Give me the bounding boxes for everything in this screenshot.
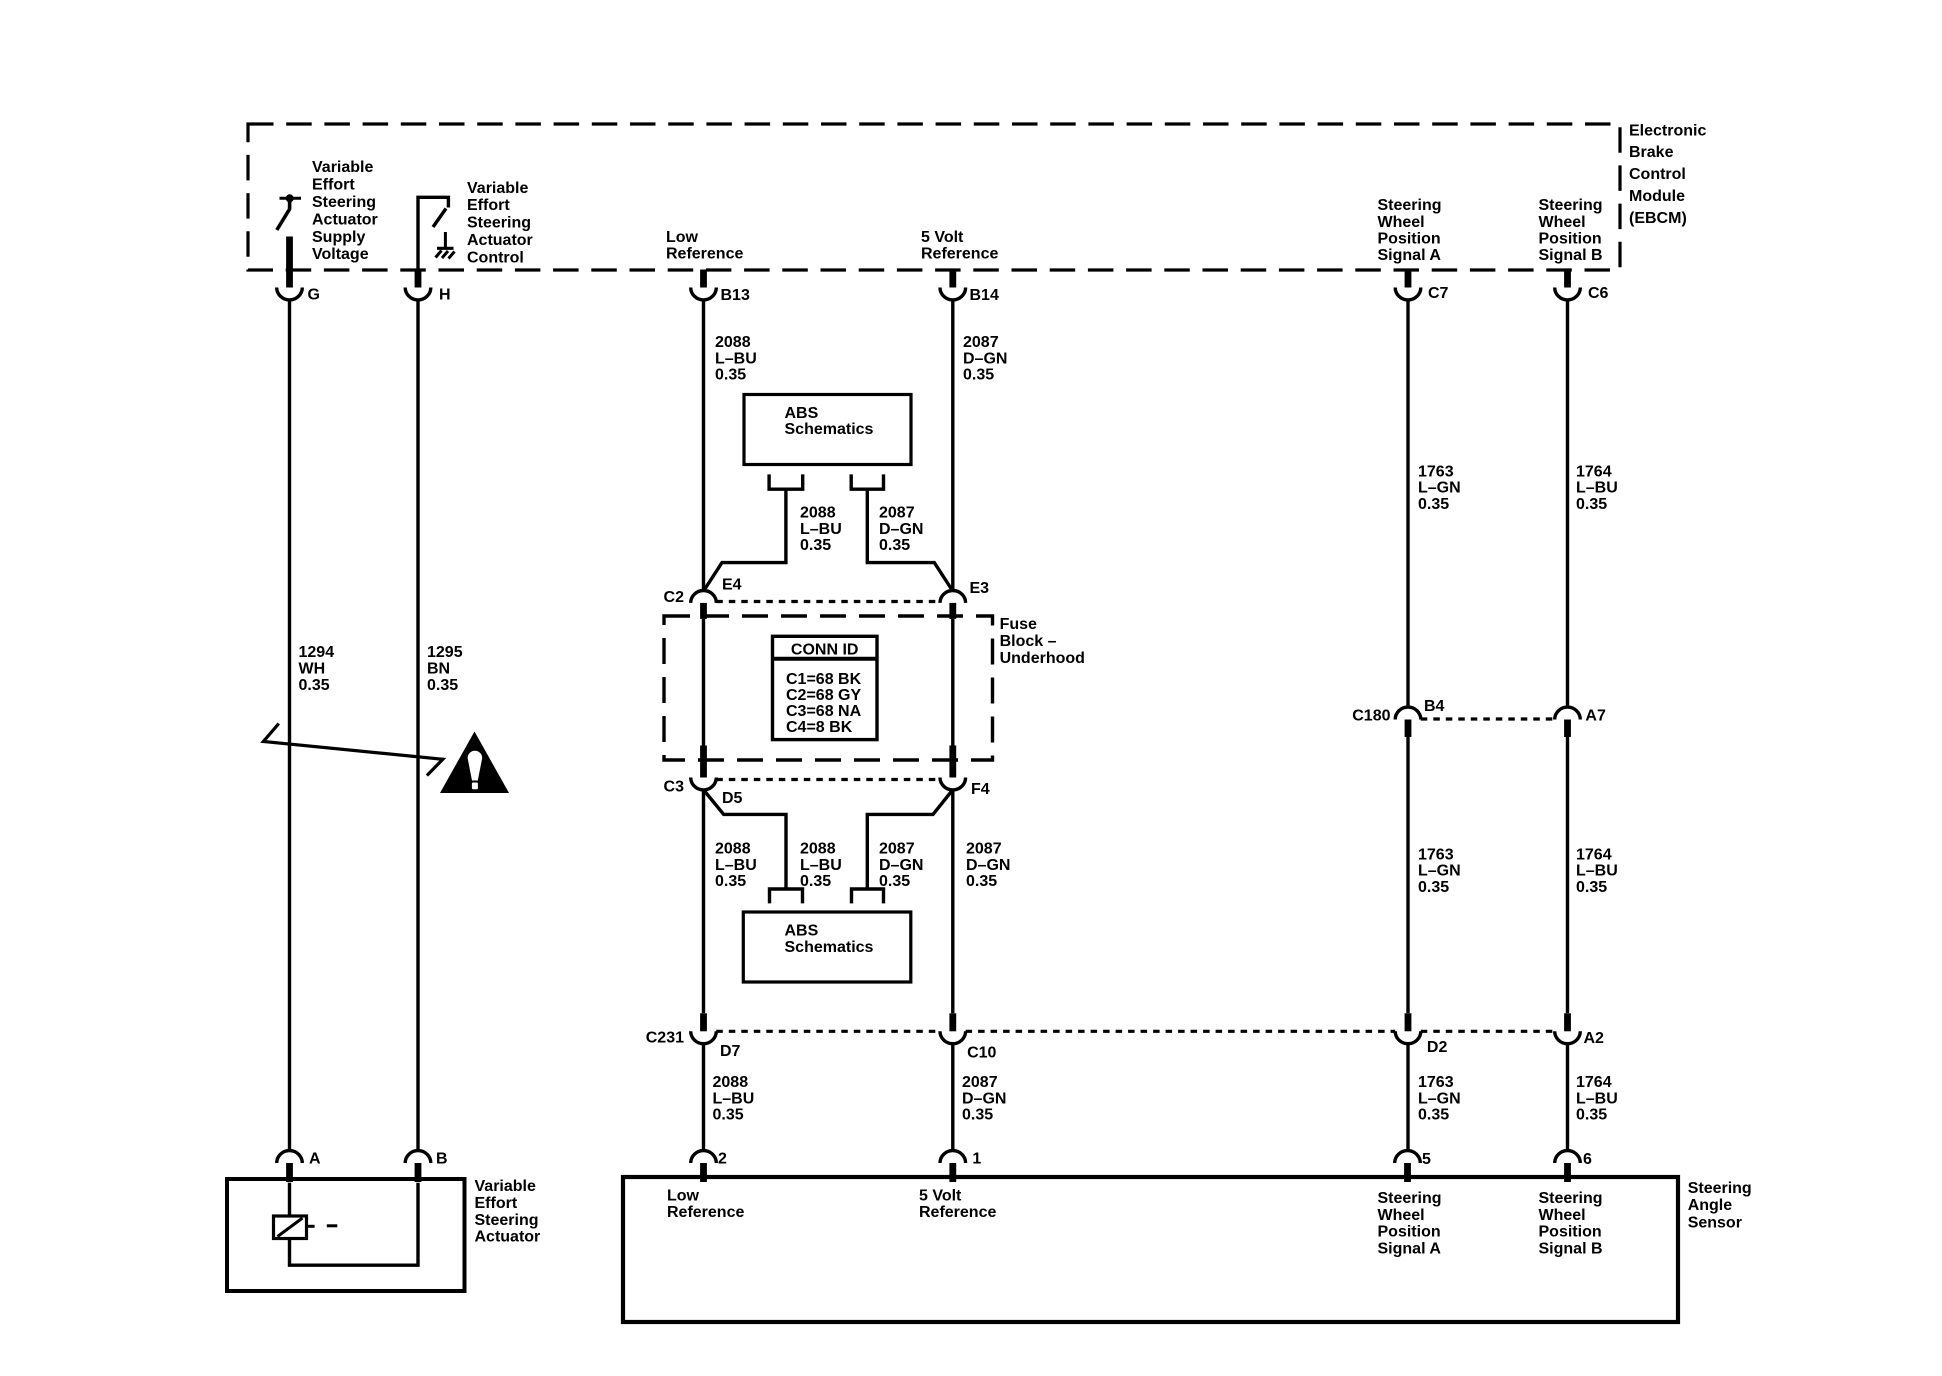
svg-text:Module: Module bbox=[1629, 188, 1685, 205]
svg-text:Steering: Steering bbox=[1378, 197, 1442, 214]
svg-text:D7: D7 bbox=[720, 1043, 741, 1060]
svg-text:D2: D2 bbox=[1427, 1039, 1448, 1056]
svg-text:Steering: Steering bbox=[467, 215, 531, 232]
svg-text:C231: C231 bbox=[646, 1030, 684, 1047]
svg-text:Signal B: Signal B bbox=[1539, 1240, 1603, 1257]
svg-text:Underhood: Underhood bbox=[1000, 650, 1085, 667]
svg-text:Block –: Block – bbox=[1000, 633, 1057, 650]
svg-text:B13: B13 bbox=[721, 287, 750, 304]
svg-text:Low: Low bbox=[667, 1187, 700, 1204]
svg-text:Angle: Angle bbox=[1688, 1197, 1733, 1214]
svg-text:0.35: 0.35 bbox=[800, 873, 831, 890]
svg-text:2088: 2088 bbox=[715, 334, 751, 351]
svg-text:D–GN: D–GN bbox=[879, 857, 923, 874]
svg-text:5: 5 bbox=[1422, 1151, 1431, 1168]
svg-text:2088: 2088 bbox=[800, 505, 836, 522]
svg-text:C180: C180 bbox=[1352, 707, 1390, 724]
svg-text:L–GN: L–GN bbox=[1418, 863, 1461, 880]
svg-text:C2: C2 bbox=[664, 589, 685, 606]
svg-text:Position: Position bbox=[1539, 1224, 1602, 1241]
svg-text:Signal A: Signal A bbox=[1378, 247, 1442, 264]
svg-text:0.35: 0.35 bbox=[1576, 879, 1607, 896]
svg-text:Fuse: Fuse bbox=[1000, 616, 1037, 633]
svg-text:D5: D5 bbox=[722, 790, 743, 807]
svg-text:5 Volt: 5 Volt bbox=[919, 1187, 962, 1204]
svg-text:C1=68 BK: C1=68 BK bbox=[786, 671, 862, 688]
svg-text:Steering: Steering bbox=[1378, 1190, 1442, 1207]
svg-text:L–BU: L–BU bbox=[715, 857, 757, 874]
svg-text:C10: C10 bbox=[967, 1045, 996, 1062]
svg-text:0.35: 0.35 bbox=[1576, 496, 1607, 513]
svg-text:2087: 2087 bbox=[963, 334, 999, 351]
svg-text:L–GN: L–GN bbox=[1418, 1090, 1461, 1107]
svg-text:0.35: 0.35 bbox=[1576, 1107, 1607, 1124]
svg-text:Actuator: Actuator bbox=[475, 1229, 541, 1246]
svg-text:6: 6 bbox=[1583, 1151, 1592, 1168]
svg-text:Effort: Effort bbox=[467, 197, 510, 214]
svg-text:Steering: Steering bbox=[1539, 1190, 1603, 1207]
svg-text:Reference: Reference bbox=[921, 246, 998, 263]
svg-text:Position: Position bbox=[1378, 230, 1441, 247]
svg-text:Reference: Reference bbox=[667, 1204, 744, 1221]
svg-text:Sensor: Sensor bbox=[1688, 1215, 1742, 1232]
svg-text:2087: 2087 bbox=[962, 1074, 998, 1091]
svg-text:0.35: 0.35 bbox=[966, 873, 997, 890]
svg-text:0.35: 0.35 bbox=[800, 537, 831, 554]
svg-text:1294: 1294 bbox=[299, 644, 335, 661]
svg-text:Actuator: Actuator bbox=[467, 232, 533, 249]
svg-text:L–BU: L–BU bbox=[713, 1090, 755, 1107]
svg-text:L–BU: L–BU bbox=[800, 857, 842, 874]
svg-text:C6: C6 bbox=[1588, 285, 1609, 302]
svg-text:0.35: 0.35 bbox=[713, 1107, 744, 1124]
svg-text:0.35: 0.35 bbox=[963, 367, 994, 384]
svg-text:1: 1 bbox=[972, 1151, 981, 1168]
svg-text:CONN ID: CONN ID bbox=[791, 642, 859, 659]
svg-text:C4=8 BK: C4=8 BK bbox=[786, 719, 853, 736]
svg-text:Voltage: Voltage bbox=[312, 246, 369, 263]
svg-text:H: H bbox=[439, 287, 451, 304]
svg-text:L–GN: L–GN bbox=[1418, 480, 1461, 497]
svg-text:0.35: 0.35 bbox=[879, 873, 910, 890]
svg-text:D–GN: D–GN bbox=[962, 1090, 1006, 1107]
svg-text:Reference: Reference bbox=[666, 246, 743, 263]
svg-text:ABS: ABS bbox=[785, 405, 819, 422]
svg-text:1763: 1763 bbox=[1418, 1074, 1454, 1091]
svg-text:2088: 2088 bbox=[800, 841, 836, 858]
svg-text:Signal B: Signal B bbox=[1539, 247, 1603, 264]
svg-text:(EBCM): (EBCM) bbox=[1629, 210, 1687, 227]
svg-text:2087: 2087 bbox=[966, 841, 1002, 858]
svg-text:E3: E3 bbox=[970, 580, 990, 597]
svg-text:D–GN: D–GN bbox=[966, 857, 1010, 874]
svg-text:Actuator: Actuator bbox=[312, 211, 378, 228]
svg-text:1764: 1764 bbox=[1576, 463, 1612, 480]
svg-text:Schematics: Schematics bbox=[785, 421, 874, 438]
svg-text:Control: Control bbox=[467, 249, 524, 266]
svg-text:Position: Position bbox=[1539, 230, 1602, 247]
svg-text:5 Volt: 5 Volt bbox=[921, 229, 964, 246]
svg-text:Electronic: Electronic bbox=[1629, 122, 1706, 139]
svg-text:1295: 1295 bbox=[427, 644, 463, 661]
svg-text:2: 2 bbox=[718, 1151, 727, 1168]
svg-text:Position: Position bbox=[1378, 1224, 1441, 1241]
svg-text:A: A bbox=[309, 1151, 321, 1168]
svg-text:C7: C7 bbox=[1428, 285, 1449, 302]
svg-text:Variable: Variable bbox=[475, 1178, 536, 1195]
svg-text:Variable: Variable bbox=[467, 180, 528, 197]
svg-text:Signal A: Signal A bbox=[1378, 1240, 1442, 1257]
svg-text:WH: WH bbox=[299, 661, 326, 678]
svg-text:B: B bbox=[436, 1151, 448, 1168]
svg-text:Schematics: Schematics bbox=[785, 939, 874, 956]
svg-text:E4: E4 bbox=[722, 577, 742, 594]
svg-text:Reference: Reference bbox=[919, 1204, 996, 1221]
svg-text:A2: A2 bbox=[1584, 1030, 1605, 1047]
svg-text:Control: Control bbox=[1629, 166, 1686, 183]
svg-text:C2=68 GY: C2=68 GY bbox=[786, 687, 861, 704]
svg-text:Wheel: Wheel bbox=[1539, 214, 1586, 231]
svg-text:BN: BN bbox=[427, 661, 450, 678]
svg-text:0.35: 0.35 bbox=[299, 677, 330, 694]
svg-text:L–BU: L–BU bbox=[800, 521, 842, 538]
svg-text:0.35: 0.35 bbox=[962, 1107, 993, 1124]
svg-text:Supply: Supply bbox=[312, 229, 365, 246]
svg-text:Wheel: Wheel bbox=[1539, 1207, 1586, 1224]
svg-text:0.35: 0.35 bbox=[427, 677, 458, 694]
svg-text:0.35: 0.35 bbox=[1418, 879, 1449, 896]
svg-text:F4: F4 bbox=[971, 781, 990, 798]
svg-text:C3: C3 bbox=[664, 779, 685, 796]
svg-text:0.35: 0.35 bbox=[1418, 496, 1449, 513]
svg-text:2088: 2088 bbox=[715, 841, 751, 858]
svg-text:Steering: Steering bbox=[1688, 1180, 1752, 1197]
svg-text:G: G bbox=[308, 287, 320, 304]
svg-text:L–BU: L–BU bbox=[1576, 1090, 1618, 1107]
svg-text:1763: 1763 bbox=[1418, 846, 1454, 863]
svg-text:ABS: ABS bbox=[785, 923, 819, 940]
svg-text:Steering: Steering bbox=[312, 194, 376, 211]
svg-text:B14: B14 bbox=[970, 287, 999, 304]
svg-text:A7: A7 bbox=[1585, 707, 1606, 724]
svg-text:Effort: Effort bbox=[475, 1195, 518, 1212]
svg-text:Brake: Brake bbox=[1629, 144, 1674, 161]
svg-text:2088: 2088 bbox=[713, 1074, 749, 1091]
svg-text:2087: 2087 bbox=[879, 841, 915, 858]
svg-text:Low: Low bbox=[666, 229, 699, 246]
svg-text:1763: 1763 bbox=[1418, 463, 1454, 480]
svg-text:C3=68 NA: C3=68 NA bbox=[786, 703, 862, 720]
svg-text:Effort: Effort bbox=[312, 177, 355, 194]
svg-text:0.35: 0.35 bbox=[715, 873, 746, 890]
svg-text:Wheel: Wheel bbox=[1378, 214, 1425, 231]
svg-text:Steering: Steering bbox=[475, 1212, 539, 1229]
svg-text:1764: 1764 bbox=[1576, 846, 1612, 863]
svg-text:1764: 1764 bbox=[1576, 1074, 1612, 1091]
svg-text:Variable: Variable bbox=[312, 159, 373, 176]
svg-text:D–GN: D–GN bbox=[879, 521, 923, 538]
svg-text:L–BU: L–BU bbox=[1576, 863, 1618, 880]
svg-text:0.35: 0.35 bbox=[715, 367, 746, 384]
svg-text:2087: 2087 bbox=[879, 505, 915, 522]
svg-text:D–GN: D–GN bbox=[963, 350, 1007, 367]
svg-text:L–BU: L–BU bbox=[715, 350, 757, 367]
svg-text:Wheel: Wheel bbox=[1378, 1207, 1425, 1224]
svg-text:Steering: Steering bbox=[1539, 197, 1603, 214]
svg-text:0.35: 0.35 bbox=[1418, 1107, 1449, 1124]
svg-text:0.35: 0.35 bbox=[879, 537, 910, 554]
svg-text:L–BU: L–BU bbox=[1576, 480, 1618, 497]
svg-text:B4: B4 bbox=[1424, 698, 1445, 715]
